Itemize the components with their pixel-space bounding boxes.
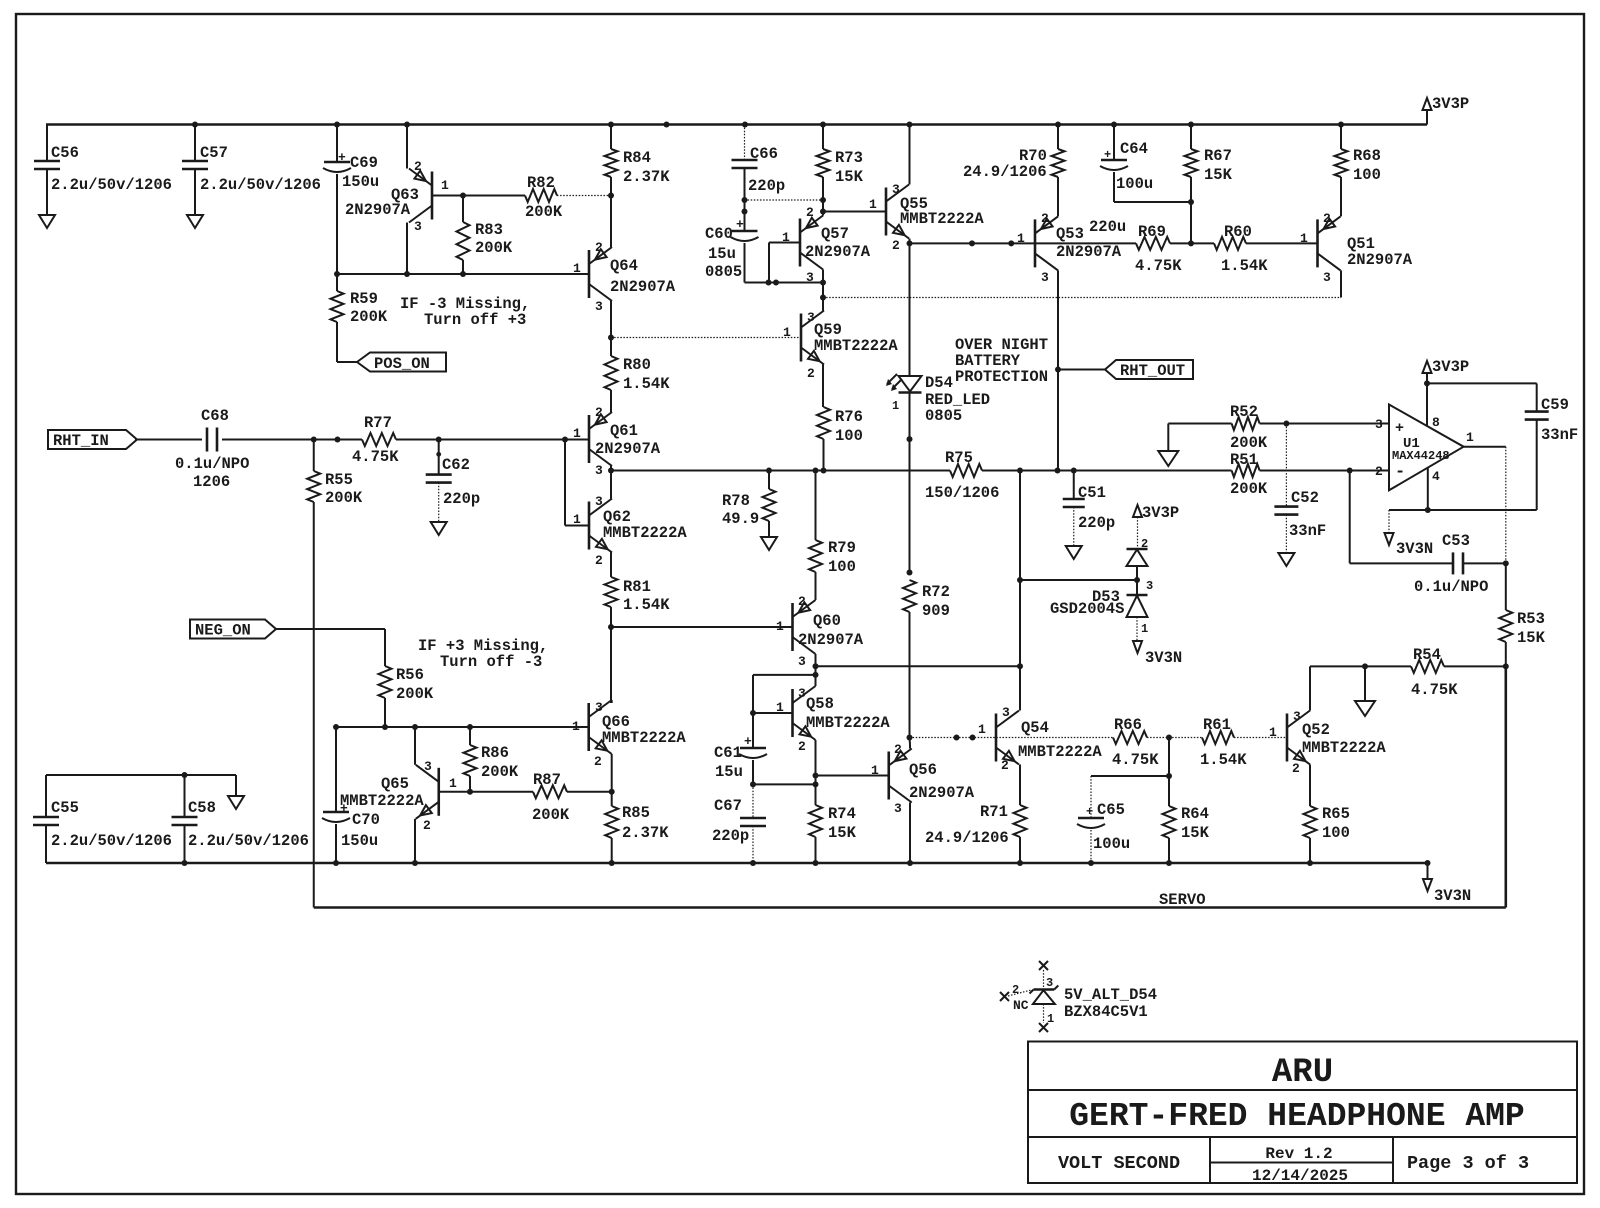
svg-text:1: 1 xyxy=(1141,622,1148,636)
svg-text:12/14/2025: 12/14/2025 xyxy=(1252,1167,1348,1185)
svg-text:VOLT SECOND: VOLT SECOND xyxy=(1058,1153,1180,1174)
svg-text:D54: D54 xyxy=(925,374,953,392)
power 3V3P above U1 xyxy=(1426,383,1428,426)
net flag NEG_ON xyxy=(190,620,276,639)
svg-text:2N2907A: 2N2907A xyxy=(345,201,411,219)
svg-text:R73: R73 xyxy=(835,149,863,167)
svg-text:4.75K: 4.75K xyxy=(352,448,399,466)
svg-text:100u: 100u xyxy=(1093,835,1130,853)
svg-text:0805: 0805 xyxy=(925,407,962,425)
svg-text:BZX84C5V1: BZX84C5V1 xyxy=(1064,1003,1148,1021)
ground below C56 xyxy=(39,215,55,228)
resistor R78 49.9 xyxy=(768,471,770,490)
ground below C57 xyxy=(187,215,203,228)
power 3V3N below D53 xyxy=(1133,641,1142,653)
svg-text:MMBT2222A: MMBT2222A xyxy=(1018,743,1102,761)
svg-text:0805: 0805 xyxy=(705,263,742,281)
svg-text:R72: R72 xyxy=(922,583,950,601)
svg-text:Rev 1.2: Rev 1.2 xyxy=(1265,1145,1332,1163)
svg-text:3: 3 xyxy=(414,219,422,234)
ground below C52 xyxy=(1278,553,1294,566)
svg-text:220p: 220p xyxy=(712,827,749,845)
svg-text:220p: 220p xyxy=(748,177,785,195)
svg-text:2: 2 xyxy=(806,205,814,220)
svg-text:GSD2004S: GSD2004S xyxy=(1050,600,1124,618)
svg-text:+: + xyxy=(736,217,744,232)
resistor R75 150/1206 xyxy=(950,464,982,477)
svg-text:R51: R51 xyxy=(1230,451,1258,469)
svg-text:2: 2 xyxy=(798,739,806,754)
svg-text:R75: R75 xyxy=(945,449,973,467)
svg-text:1: 1 xyxy=(573,512,581,527)
wire y666 xyxy=(816,665,1021,667)
capacitor C69 150u xyxy=(336,125,338,163)
svg-text:R76: R76 xyxy=(835,408,863,426)
svg-text:3: 3 xyxy=(1046,976,1053,990)
svg-text:Page 3 of 3: Page 3 of 3 xyxy=(1407,1153,1529,1174)
svg-text:R59: R59 xyxy=(350,290,378,308)
resistor R76 100 xyxy=(817,407,830,439)
svg-text:1: 1 xyxy=(871,763,879,778)
svg-text:2: 2 xyxy=(1375,464,1383,479)
svg-text:49.9: 49.9 xyxy=(722,510,759,528)
resistor R60 1.54K xyxy=(1214,237,1246,250)
ground below R54 wire xyxy=(1355,701,1375,716)
svg-text:100: 100 xyxy=(828,558,856,576)
resistor R66 4.75K xyxy=(1113,731,1147,744)
svg-text:C67: C67 xyxy=(714,797,742,815)
wire node 627 xyxy=(608,624,614,630)
svg-text:1: 1 xyxy=(449,776,457,791)
svg-text:100: 100 xyxy=(1353,166,1381,184)
svg-text:C56: C56 xyxy=(51,144,79,162)
svg-text:MMBT2222A: MMBT2222A xyxy=(900,210,984,228)
wire y737 row xyxy=(910,737,1114,739)
svg-text:Q61: Q61 xyxy=(610,422,638,440)
svg-text:2: 2 xyxy=(1012,983,1019,997)
svg-text:R52: R52 xyxy=(1230,403,1258,421)
svg-text:1.54K: 1.54K xyxy=(1200,751,1247,769)
resistor R68 100 xyxy=(1340,125,1342,150)
svg-text:+: + xyxy=(1395,420,1404,437)
transistor Q52 MMBT2222A xyxy=(1286,714,1289,762)
wire C60 bottom node xyxy=(745,282,824,284)
svg-text:1: 1 xyxy=(1017,231,1025,246)
svg-text:3: 3 xyxy=(798,654,806,669)
svg-text:GERT-FRED HEADPHONE AMP: GERT-FRED HEADPHONE AMP xyxy=(1069,1098,1524,1135)
svg-text:R87: R87 xyxy=(533,771,561,789)
resistor R56 200K xyxy=(379,666,392,698)
svg-text:2: 2 xyxy=(1141,537,1148,551)
svg-text:1.54K: 1.54K xyxy=(1221,257,1268,275)
transistor Q58 MMBT2222A xyxy=(791,689,794,737)
svg-text:C66: C66 xyxy=(750,145,778,163)
svg-text:Q58: Q58 xyxy=(806,695,834,713)
svg-text:3V3N: 3V3N xyxy=(1434,887,1471,905)
svg-text:C68: C68 xyxy=(201,407,229,425)
wire C65 node xyxy=(1168,738,1170,777)
resistor R71 24.9/1206 xyxy=(1014,805,1027,837)
transistor Q59 MMBT2222A xyxy=(800,314,803,362)
ground left of R52 xyxy=(1167,424,1169,451)
svg-text:0.1u/NPO: 0.1u/NPO xyxy=(175,455,249,473)
svg-text:R65: R65 xyxy=(1322,805,1350,823)
svg-text:200K: 200K xyxy=(396,685,434,703)
svg-text:2N2907A: 2N2907A xyxy=(805,243,871,261)
capacitor C55 xyxy=(45,775,47,817)
svg-text:1: 1 xyxy=(1300,231,1308,246)
capacitor C51 220p xyxy=(1073,471,1075,500)
svg-text:15K: 15K xyxy=(1181,824,1210,842)
net flag RHT_IN xyxy=(48,430,137,449)
svg-text:ARU: ARU xyxy=(1272,1054,1333,1092)
svg-text:33nF: 33nF xyxy=(1289,522,1326,540)
svg-text:R84: R84 xyxy=(623,149,651,167)
capacitor C53 0.1u/NPO xyxy=(1349,471,1351,564)
wire SERVO xyxy=(314,906,1506,909)
svg-text:3: 3 xyxy=(894,801,902,816)
svg-text:R68: R68 xyxy=(1353,147,1381,165)
power 3V3P above D53 xyxy=(1133,505,1142,517)
svg-text:MMBT2222A: MMBT2222A xyxy=(603,524,687,542)
svg-text:+: + xyxy=(338,150,346,165)
svg-text:150u: 150u xyxy=(342,173,379,191)
wire U1 output xyxy=(1464,446,1506,448)
svg-text:2: 2 xyxy=(892,238,900,253)
capacitor C65 100u xyxy=(1078,817,1104,820)
wire Q61-Q62 base xyxy=(564,440,566,526)
svg-text:R77: R77 xyxy=(364,414,392,432)
svg-text:3V3P: 3V3P xyxy=(1432,95,1469,113)
svg-text:2: 2 xyxy=(594,754,602,769)
svg-text:C64: C64 xyxy=(1120,140,1148,158)
svg-text:Turn off +3: Turn off +3 xyxy=(424,311,526,329)
svg-text:3: 3 xyxy=(595,299,603,314)
svg-text:1206: 1206 xyxy=(193,473,230,491)
svg-text:R64: R64 xyxy=(1181,805,1209,823)
transistor Q65 MMBT2222A xyxy=(437,768,440,816)
svg-text:15K: 15K xyxy=(828,824,857,842)
svg-text:2.2u/50v/1206: 2.2u/50v/1206 xyxy=(51,176,172,194)
svg-text:R74: R74 xyxy=(828,805,856,823)
svg-text:2N2907A: 2N2907A xyxy=(909,784,975,802)
svg-text:2: 2 xyxy=(595,405,603,420)
svg-text:C70: C70 xyxy=(352,811,380,829)
svg-text:2: 2 xyxy=(1001,758,1009,773)
svg-text:R81: R81 xyxy=(623,578,651,596)
svg-text:2: 2 xyxy=(595,240,603,255)
capacitor C61 15u xyxy=(740,747,766,750)
svg-text:C62: C62 xyxy=(442,456,470,474)
svg-text:R69: R69 xyxy=(1138,223,1166,241)
svg-text:R67: R67 xyxy=(1204,147,1232,165)
svg-text:1: 1 xyxy=(572,719,580,734)
svg-text:4: 4 xyxy=(1432,469,1440,484)
svg-text:2: 2 xyxy=(894,742,902,757)
transistor Q51 2N2907A xyxy=(1316,219,1319,267)
svg-text:1: 1 xyxy=(441,178,449,193)
svg-text:+: + xyxy=(744,734,752,749)
svg-text:Q52: Q52 xyxy=(1302,721,1330,739)
svg-text:1: 1 xyxy=(776,619,784,634)
wire D53 to node xyxy=(1020,579,1137,581)
resistor R83 200K xyxy=(462,196,464,223)
svg-text:1: 1 xyxy=(869,197,877,212)
svg-text:15u: 15u xyxy=(708,245,736,263)
resistor R82 200K xyxy=(463,195,525,197)
svg-text:SERVO: SERVO xyxy=(1159,891,1206,909)
svg-text:2: 2 xyxy=(1292,761,1300,776)
svg-text:5V_ALT_D54: 5V_ALT_D54 xyxy=(1064,986,1157,1004)
svg-text:1: 1 xyxy=(782,230,790,245)
svg-text:200K: 200K xyxy=(481,763,519,781)
svg-text:3: 3 xyxy=(1002,705,1010,720)
ground below C62 xyxy=(431,522,447,535)
svg-text:200K: 200K xyxy=(525,203,563,221)
transistor Q63 2N2907A xyxy=(431,172,434,220)
svg-text:R86: R86 xyxy=(481,744,509,762)
svg-text:3V3N: 3V3N xyxy=(1145,649,1182,667)
resistor R77 4.75K xyxy=(362,433,396,446)
ground below C51 xyxy=(1066,546,1082,559)
wire Q58 emitter node xyxy=(813,773,819,779)
svg-text:C57: C57 xyxy=(200,144,228,162)
capacitor C58 xyxy=(184,775,186,817)
svg-text:Q64: Q64 xyxy=(610,257,638,275)
transistor Q60 2N2907A xyxy=(791,603,794,651)
svg-text:C59: C59 xyxy=(1541,396,1569,414)
transistor Q57 2N2907A xyxy=(799,219,802,267)
op-amp U1 MAX44248 xyxy=(1389,405,1464,491)
net flag RHT_OUT xyxy=(1058,369,1105,371)
svg-text:200K: 200K xyxy=(1230,480,1268,498)
svg-text:2N2907A: 2N2907A xyxy=(1056,243,1122,261)
resistor R51 200K xyxy=(1232,464,1260,477)
svg-text:R56: R56 xyxy=(396,666,424,684)
svg-text:909: 909 xyxy=(922,602,950,620)
svg-text:4.75K: 4.75K xyxy=(1112,751,1159,769)
svg-text:3: 3 xyxy=(595,494,603,509)
wire x1020 vertical xyxy=(1019,471,1021,703)
resistor R69 4.75K xyxy=(1136,237,1170,250)
capacitor C56 xyxy=(46,125,48,162)
resistor R59 200K xyxy=(336,274,338,291)
svg-text:R60: R60 xyxy=(1224,223,1252,241)
svg-text:RHT_OUT: RHT_OUT xyxy=(1120,362,1185,380)
svg-text:NEG_ON: NEG_ON xyxy=(195,622,251,640)
resistor R53 15K xyxy=(1505,563,1507,610)
svg-text:200K: 200K xyxy=(1230,434,1268,452)
svg-text:1: 1 xyxy=(573,261,581,276)
svg-text:C58: C58 xyxy=(188,799,216,817)
svg-text:1: 1 xyxy=(1269,725,1277,740)
resistor R72 909 xyxy=(903,580,916,612)
resistor R84 2.37K xyxy=(610,125,612,150)
zener diode 5V_ALT_D54 BZX84C5V1 xyxy=(1039,961,1048,970)
resistor R73 15K xyxy=(822,125,824,150)
wire y775 left xyxy=(46,774,236,776)
power 3V3N below U1 xyxy=(1385,533,1394,545)
svg-text:3: 3 xyxy=(1375,417,1383,432)
resistor R79 100 xyxy=(815,471,817,541)
svg-text:C55: C55 xyxy=(51,799,79,817)
svg-text:2.37K: 2.37K xyxy=(622,824,669,842)
wire y727 row xyxy=(336,726,589,728)
svg-text:2N2907A: 2N2907A xyxy=(798,631,864,649)
svg-text:C52: C52 xyxy=(1291,489,1319,507)
resistor R70 24.9/1206 xyxy=(1057,125,1059,150)
resistor R54 4.75K xyxy=(1411,660,1444,673)
svg-text:C61: C61 xyxy=(714,744,742,762)
diode D53 GSD2004S xyxy=(1127,548,1148,551)
svg-text:C51: C51 xyxy=(1078,484,1106,502)
power 3V3N bottom right xyxy=(1425,860,1431,866)
resistor R52 200K xyxy=(1168,423,1231,425)
svg-text:200K: 200K xyxy=(325,489,363,507)
svg-text:C65: C65 xyxy=(1097,801,1125,819)
svg-text:220p: 220p xyxy=(1078,514,1115,532)
svg-text:2.2u/50v/1206: 2.2u/50v/1206 xyxy=(188,832,309,850)
transistor Q66 MMBT2222A xyxy=(587,703,590,751)
resistor R85 2.37K xyxy=(605,806,618,838)
transistor Q53 2N2907A xyxy=(1034,219,1037,267)
LED D54 RED_LED xyxy=(909,243,911,375)
svg-text:R79: R79 xyxy=(828,539,856,557)
resistor R87 200K xyxy=(533,785,567,798)
svg-text:Q65: Q65 xyxy=(381,775,409,793)
svg-text:15u: 15u xyxy=(715,763,743,781)
svg-text:2: 2 xyxy=(1041,211,1049,226)
resistor R55 200K xyxy=(313,440,315,472)
svg-text:R61: R61 xyxy=(1203,716,1231,734)
svg-text:2.2u/50v/1206: 2.2u/50v/1206 xyxy=(51,832,172,850)
svg-text:2: 2 xyxy=(1323,211,1331,226)
wire Q64-Q59 xyxy=(608,335,614,341)
svg-text:C60: C60 xyxy=(705,225,733,243)
svg-text:MMBT2222A: MMBT2222A xyxy=(814,337,898,355)
svg-text:2N2907A: 2N2907A xyxy=(595,440,661,458)
svg-text:3: 3 xyxy=(424,759,432,774)
svg-text:1: 1 xyxy=(1466,430,1474,445)
svg-text:MMBT2222A: MMBT2222A xyxy=(806,714,890,732)
svg-text:R82: R82 xyxy=(527,174,555,192)
wire y297 xyxy=(823,297,1341,299)
ground below R78 xyxy=(761,537,777,550)
svg-text:1: 1 xyxy=(783,325,791,340)
svg-text:3V3N: 3V3N xyxy=(1396,540,1433,558)
svg-text:24.9/1206: 24.9/1206 xyxy=(925,829,1009,847)
svg-text:200K: 200K xyxy=(532,806,570,824)
svg-text:2N2907A: 2N2907A xyxy=(1347,251,1413,269)
svg-text:2N2907A: 2N2907A xyxy=(610,278,676,296)
svg-text:1.54K: 1.54K xyxy=(623,596,670,614)
svg-text:1: 1 xyxy=(892,399,899,413)
svg-text:100: 100 xyxy=(1322,824,1350,842)
transistor Q54 MMBT2222A xyxy=(995,714,998,762)
resistor R80 1.54K xyxy=(610,338,612,357)
svg-text:C53: C53 xyxy=(1442,532,1470,550)
svg-text:200K: 200K xyxy=(475,239,513,257)
svg-text:2: 2 xyxy=(414,159,422,174)
transistor Q64 2N2907A xyxy=(588,250,591,298)
ground right of C58 xyxy=(228,796,244,809)
svg-text:2: 2 xyxy=(807,366,815,381)
wire U1 pin4 and output xyxy=(1389,509,1537,511)
svg-text:POS_ON: POS_ON xyxy=(374,355,430,373)
svg-text:R53: R53 xyxy=(1517,610,1545,628)
svg-text:8: 8 xyxy=(1432,415,1440,430)
capacitor C57 xyxy=(194,125,196,162)
svg-text:MMBT2222A: MMBT2222A xyxy=(602,729,686,747)
svg-text:1: 1 xyxy=(1047,1012,1054,1026)
svg-text:R66: R66 xyxy=(1114,716,1142,734)
svg-text:3: 3 xyxy=(595,463,603,478)
transistor Q61 2N2907A xyxy=(588,415,591,463)
resistor R86 200K xyxy=(469,727,471,745)
svg-text:3V3P: 3V3P xyxy=(1142,504,1179,522)
svg-text:15K: 15K xyxy=(1204,166,1233,184)
svg-text:RHT_IN: RHT_IN xyxy=(53,432,109,450)
svg-text:Turn off -3: Turn off -3 xyxy=(440,653,542,671)
capacitor C59 33nF xyxy=(1427,382,1537,384)
svg-text:1.54K: 1.54K xyxy=(623,375,670,393)
svg-text:NC: NC xyxy=(1013,998,1029,1013)
svg-text:15K: 15K xyxy=(1517,629,1546,647)
svg-text:4.75K: 4.75K xyxy=(1411,681,1458,699)
capacitor C66 220p xyxy=(744,125,746,161)
wire 3V3N bottom rail xyxy=(46,862,1428,865)
svg-text:Q57: Q57 xyxy=(821,225,849,243)
svg-text:3: 3 xyxy=(1293,709,1301,724)
svg-text:R80: R80 xyxy=(623,356,651,374)
wire node y274 xyxy=(337,273,589,275)
svg-text:-: - xyxy=(1395,463,1405,482)
resistor R81 1.54K xyxy=(605,577,618,607)
svg-text:4.75K: 4.75K xyxy=(1135,257,1182,275)
svg-text:100: 100 xyxy=(835,427,863,445)
wire RHT_IN row xyxy=(135,439,202,441)
svg-text:15K: 15K xyxy=(835,168,864,186)
resistor R74 15K xyxy=(809,805,822,837)
svg-text:3: 3 xyxy=(892,182,900,197)
capacitor C70 150u xyxy=(323,811,349,814)
resistor R61 1.54K xyxy=(1169,737,1202,739)
svg-text:R85: R85 xyxy=(622,804,650,822)
resistor R64 15K xyxy=(1168,776,1170,806)
svg-text:1: 1 xyxy=(776,700,784,715)
wire 3V3P top rail xyxy=(46,123,1427,126)
svg-text:24.9/1206: 24.9/1206 xyxy=(963,163,1047,181)
capacitor C62 220p xyxy=(438,440,440,475)
svg-text:MAX44248: MAX44248 xyxy=(1392,449,1450,463)
svg-text:R71: R71 xyxy=(980,803,1008,821)
capacitor C64 100u xyxy=(1113,125,1115,161)
wire C61 node xyxy=(753,674,816,676)
capacitor C60 15u 0805 xyxy=(732,230,758,233)
svg-text:220u: 220u xyxy=(1089,218,1126,236)
svg-text:Q53: Q53 xyxy=(1056,225,1084,243)
wire NEG_ON to R56 xyxy=(276,628,385,630)
svg-text:3: 3 xyxy=(798,686,806,701)
svg-text:150/1206: 150/1206 xyxy=(925,484,999,502)
svg-text:100u: 100u xyxy=(1116,175,1153,193)
svg-text:3: 3 xyxy=(1041,270,1049,285)
wire main y470 xyxy=(611,470,950,472)
power 3V3P top-right xyxy=(1426,110,1428,125)
svg-text:220p: 220p xyxy=(443,490,480,508)
svg-text:R54: R54 xyxy=(1413,646,1441,664)
wire C66 to Q57 collector xyxy=(745,199,824,201)
